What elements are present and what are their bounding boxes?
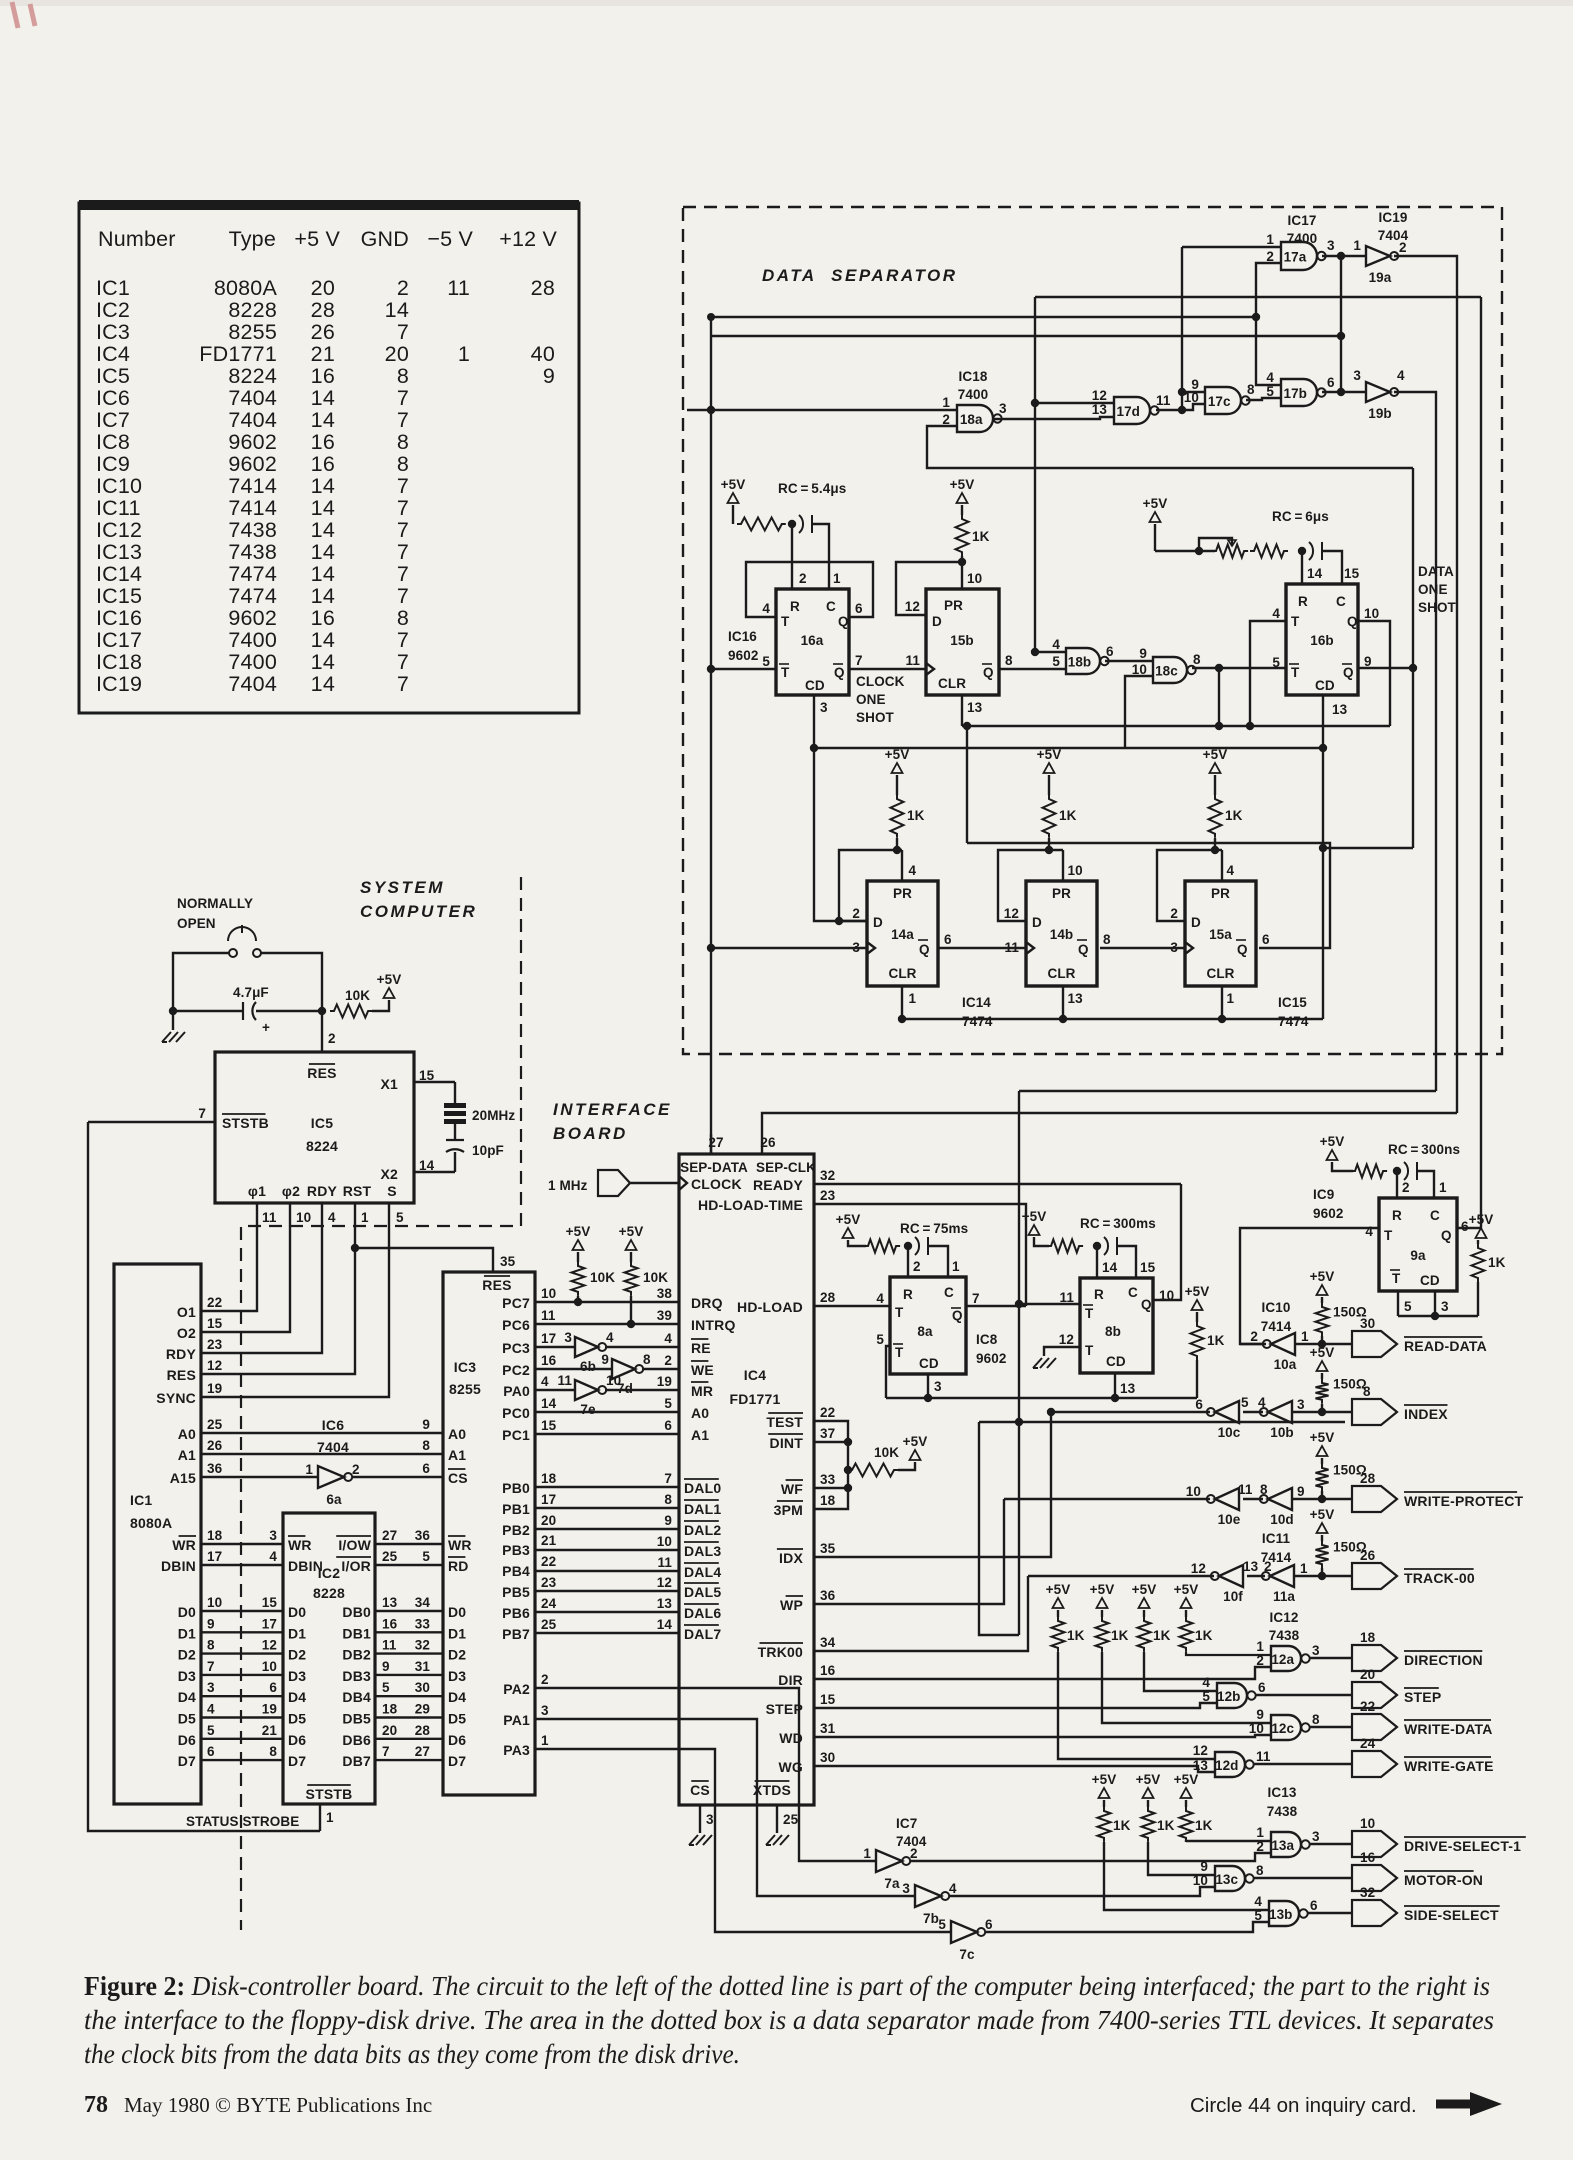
svg-text:34: 34 [820, 1635, 836, 1650]
wire crystal top [454, 1082, 456, 1103]
ground 8b T [1033, 1358, 1056, 1368]
svg-text:7438: 7438 [1269, 1628, 1300, 1643]
svg-text:SIDE-SELECT: SIDE-SELECT [1404, 1907, 1499, 1923]
svg-text:IC7: IC7 [896, 1816, 917, 1831]
svg-text:DATA SEPARATOR: DATA SEPARATOR [762, 266, 958, 285]
svg-text:+5 V: +5 V [294, 227, 340, 251]
svg-text:PB1: PB1 [502, 1501, 530, 1517]
wire R pin 16a [791, 524, 793, 589]
svg-text:IC13: IC13 [96, 540, 142, 564]
wire 18b out to 18c.9 [1105, 660, 1153, 662]
node 19b input [1337, 388, 1345, 396]
wire cap to C pin 16a [812, 524, 829, 589]
svg-text:11: 11 [1256, 1749, 1271, 1764]
svg-text:28: 28 [415, 1723, 431, 1738]
svg-text:5: 5 [382, 1680, 390, 1695]
capacitor RC 8b [1104, 1237, 1117, 1255]
wire DINT stub [814, 1441, 848, 1443]
svg-text:+5V: +5V [903, 1434, 928, 1449]
svg-text:20: 20 [385, 342, 409, 366]
svg-text:RES: RES [307, 1065, 336, 1081]
svg-text:DBIN: DBIN [288, 1558, 323, 1574]
svg-text:1: 1 [909, 991, 917, 1006]
svg-text:SEP-CLK: SEP-CLK [756, 1160, 816, 1175]
svg-text:1: 1 [1256, 1825, 1264, 1840]
svg-text:D1: D1 [288, 1625, 306, 1641]
svg-text:21: 21 [262, 1723, 278, 1738]
wire 1K to PR 14b [1048, 838, 1050, 850]
wire 8a Qbar up [966, 1305, 1026, 1307]
wire 16b Q loop [1358, 621, 1390, 726]
wire 10a to node [1295, 1343, 1352, 1345]
svg-text:WR: WR [288, 1537, 312, 1553]
svg-text:16: 16 [382, 1616, 398, 1631]
svg-text:IC15: IC15 [1278, 995, 1307, 1010]
svg-text:DB3: DB3 [342, 1668, 371, 1684]
capacitor C-reset 4.7uF [243, 1002, 256, 1020]
svg-text:11: 11 [558, 1373, 573, 1388]
wire +5V stem 16b [1154, 524, 1156, 551]
svg-text:22: 22 [541, 1554, 556, 1569]
wire cap row [173, 1010, 243, 1012]
svg-text:7438: 7438 [228, 540, 277, 564]
svg-text:9: 9 [207, 1616, 215, 1631]
svg-text:IC9: IC9 [1313, 1187, 1334, 1202]
svg-text:12: 12 [1059, 1332, 1074, 1347]
svg-text:8: 8 [1256, 1863, 1264, 1878]
resistor RC 16a [737, 518, 786, 531]
wire bus y317 [711, 316, 1256, 318]
svg-text:16: 16 [311, 364, 335, 388]
svg-text:8: 8 [1363, 1384, 1371, 1399]
wire PC1-A1 [535, 1433, 679, 1435]
node 17a output [1337, 252, 1345, 260]
svg-text:D: D [873, 915, 883, 930]
svg-text:2: 2 [1256, 1839, 1264, 1854]
svg-text:DAL5: DAL5 [684, 1584, 721, 1600]
wire 13c out [1253, 1877, 1352, 1879]
svg-text:IC3: IC3 [454, 1359, 476, 1375]
node 17d.12 [1031, 399, 1039, 407]
wires D0-D7 IC1 to IC2 [201, 1610, 283, 1612]
node 9a CD [1431, 1312, 1439, 1320]
svg-text:27: 27 [415, 1744, 430, 1759]
node bus 14a clk [707, 944, 715, 952]
wire bus y297 [1035, 296, 1481, 298]
wire stem bank2-3 [1185, 1800, 1187, 1807]
svg-text:PA0: PA0 [503, 1383, 530, 1399]
svg-text:2: 2 [799, 571, 807, 586]
wire 10b to node [1292, 1411, 1352, 1413]
svg-text:1K: 1K [1059, 808, 1077, 823]
wire 10K to +5V [372, 1000, 389, 1011]
svg-text:PB3: PB3 [502, 1542, 530, 1558]
svg-text:IC18: IC18 [96, 650, 142, 674]
svg-text:3: 3 [541, 1703, 549, 1718]
svg-text:14: 14 [311, 496, 335, 520]
svg-text:+5V: +5V [1092, 1772, 1117, 1787]
svg-text:8228: 8228 [313, 1585, 345, 1601]
svg-text:14: 14 [419, 1158, 435, 1173]
wire bus y336 [711, 335, 1341, 337]
svg-text:DRIVE-SELECT-1: DRIVE-SELECT-1 [1404, 1838, 1521, 1854]
svg-text:12: 12 [1092, 388, 1107, 403]
wire CD x1323 down [1322, 748, 1324, 1019]
resistor RC 9a [1351, 1165, 1387, 1178]
svg-text:TRK00: TRK00 [758, 1644, 803, 1660]
svg-text:26: 26 [207, 1438, 223, 1453]
svg-text:A0: A0 [448, 1426, 466, 1442]
svg-text:26: 26 [1360, 1548, 1376, 1563]
wire 17a.1 vertical [1181, 247, 1183, 410]
svg-text:5: 5 [664, 1396, 672, 1411]
svg-text:DAL4: DAL4 [684, 1564, 721, 1580]
wire X2 stub [414, 1171, 455, 1173]
crystal 20MHz [444, 1103, 466, 1108]
svg-text:D: D [1191, 915, 1201, 930]
svg-text:16: 16 [311, 606, 335, 630]
svg-text:20: 20 [541, 1513, 556, 1528]
wire 17a input 2 vertical [1256, 263, 1281, 385]
wire 16a CD to 14a D [814, 748, 867, 921]
resistor 1K 15b [956, 515, 969, 556]
connector WRITE-PROTECT [1352, 1486, 1397, 1512]
svg-text:1: 1 [952, 1259, 960, 1274]
svg-text:RES: RES [482, 1277, 511, 1293]
svg-text:CLR: CLR [1047, 966, 1075, 981]
svg-text:6: 6 [422, 1461, 430, 1476]
svg-text:25: 25 [541, 1617, 557, 1632]
svg-text:5: 5 [1241, 1395, 1249, 1410]
svg-text:16a: 16a [801, 633, 824, 648]
svg-text:21: 21 [541, 1533, 557, 1548]
wire PR stub 14a [901, 850, 903, 881]
svg-text:19a: 19a [1369, 270, 1392, 285]
svg-text:5: 5 [1272, 655, 1280, 670]
svg-text:7: 7 [198, 1106, 206, 1121]
svg-text:19: 19 [657, 1374, 672, 1389]
svg-text:8080A: 8080A [214, 276, 278, 300]
flip-flop 14a [867, 881, 938, 986]
svg-text:3: 3 [564, 1330, 572, 1345]
svg-text:7e: 7e [580, 1402, 596, 1417]
one-shot 16a box [776, 589, 849, 695]
svg-text:R: R [1298, 594, 1308, 609]
wire PC2 to 7d [535, 1368, 612, 1370]
svg-text:7: 7 [397, 474, 409, 498]
wire 10a out [1240, 1343, 1266, 1345]
svg-text:Number: Number [98, 227, 176, 251]
wire 15b Qbar to 18b.5 [999, 668, 1066, 670]
wire 1K to 12d.12 [1058, 1652, 1215, 1759]
svg-text:8255: 8255 [228, 320, 277, 344]
svg-text:28: 28 [820, 1290, 836, 1305]
svg-text:10: 10 [296, 1210, 311, 1225]
IC1 8080A box [114, 1264, 201, 1804]
svg-text:D5: D5 [448, 1711, 466, 1727]
svg-text:DB2: DB2 [342, 1647, 371, 1663]
node 8a R [904, 1242, 912, 1250]
svg-text:NORMALLY: NORMALLY [177, 896, 253, 911]
svg-text:RES: RES [167, 1367, 196, 1383]
svg-text:4: 4 [762, 601, 770, 616]
svg-text:D: D [1032, 915, 1042, 930]
svg-text:XTDS: XTDS [753, 1782, 791, 1798]
svg-text:PB7: PB7 [502, 1626, 530, 1642]
wire 18c out to 16b [1192, 667, 1286, 669]
svg-text:RC = 75ms: RC = 75ms [900, 1221, 968, 1236]
15b clk mark [926, 663, 934, 675]
svg-text:PR: PR [1211, 886, 1230, 901]
flip-flop 15b box [926, 589, 999, 695]
svg-text:+5V: +5V [1310, 1269, 1335, 1284]
svg-text:WRITE-DATA: WRITE-DATA [1404, 1721, 1493, 1737]
svg-text:36: 36 [820, 1588, 836, 1603]
svg-text:11: 11 [262, 1210, 277, 1225]
svg-text:Q: Q [1347, 614, 1358, 629]
svg-text:10: 10 [207, 1595, 222, 1610]
svg-text:+5V: +5V [1469, 1212, 1494, 1227]
svg-text:IC8: IC8 [96, 430, 130, 454]
svg-text:Type: Type [229, 227, 276, 251]
wire DBIN bus [201, 1564, 283, 1566]
svg-text:DBIN: DBIN [161, 1558, 196, 1574]
svg-text:3: 3 [207, 1680, 215, 1695]
svg-text:14: 14 [311, 540, 335, 564]
svg-text:10: 10 [1132, 662, 1147, 677]
node 8b Tbar [1015, 1300, 1023, 1308]
svg-text:CS: CS [448, 1470, 468, 1486]
wire 6b to RE [605, 1346, 679, 1348]
svg-text:IC10: IC10 [96, 474, 142, 498]
svg-text:T: T [1085, 1343, 1094, 1358]
wire 17a.3 to 19b.3 vertical [1340, 256, 1342, 392]
node DINT [844, 1438, 852, 1446]
svg-text:WR: WR [172, 1537, 196, 1553]
wire 9a CD stub [1434, 1291, 1436, 1316]
svg-text:IC17: IC17 [1288, 213, 1317, 228]
svg-text:D2: D2 [178, 1647, 196, 1663]
resistor 1K 14b [1043, 795, 1056, 838]
svg-text:10b: 10b [1270, 1425, 1294, 1440]
wire 11a to node [1294, 1575, 1352, 1577]
node 16b R [1298, 547, 1306, 555]
svg-text:WP: WP [780, 1597, 803, 1613]
node DRQ pullup [574, 1298, 582, 1306]
wire HD-LOAD to 8a.T [814, 1305, 890, 1307]
svg-text:D7: D7 [288, 1753, 306, 1769]
wire 9a T loop [1240, 1228, 1379, 1344]
inverter 11a [1270, 1565, 1294, 1587]
svg-text:7: 7 [972, 1291, 980, 1306]
wire stem bank1-3 [1143, 1610, 1145, 1617]
node 17d out tap [1178, 406, 1186, 414]
wire status strobe loop [88, 1122, 320, 1831]
inverter 19a [1366, 246, 1390, 266]
svg-text:CLOCK: CLOCK [856, 674, 905, 689]
svg-text:25: 25 [382, 1549, 398, 1564]
wire 15a Qbar up [967, 843, 1330, 948]
svg-text:17: 17 [262, 1616, 277, 1631]
wire IDX from IC4 [814, 1412, 1051, 1557]
ground XTDS [766, 1835, 789, 1845]
svg-text:31: 31 [820, 1721, 836, 1736]
svg-text:23: 23 [207, 1337, 223, 1352]
svg-text:T: T [1392, 1271, 1401, 1286]
svg-text:18: 18 [820, 1493, 836, 1508]
svg-text:2: 2 [942, 412, 950, 427]
inverter 7d [612, 1359, 635, 1379]
svg-text:10: 10 [1193, 1873, 1208, 1888]
svg-text:IC11: IC11 [1262, 1531, 1291, 1546]
svg-text:IC14: IC14 [962, 995, 991, 1010]
svg-text:HD-LOAD-TIME: HD-LOAD-TIME [698, 1197, 803, 1213]
wire 8b Tbar in [1019, 1303, 1080, 1305]
node 16b CD a [1319, 744, 1327, 752]
node 18a.1 bus tap [707, 406, 715, 414]
svg-text:11a: 11a [1273, 1589, 1295, 1604]
svg-text:2: 2 [1264, 1559, 1272, 1574]
svg-text:10: 10 [541, 1286, 556, 1301]
svg-text:the clock bits from the data b: the clock bits from the data bits as the… [84, 2039, 740, 2069]
wire 12d out [1253, 1763, 1352, 1765]
svg-text:D5: D5 [288, 1711, 306, 1727]
svg-text:14: 14 [1102, 1260, 1118, 1275]
node 16a trigger [707, 665, 715, 673]
svg-text:D2: D2 [288, 1647, 306, 1663]
svg-text:1: 1 [305, 1462, 313, 1477]
wire 14b CLR stub [1062, 986, 1064, 1019]
svg-text:A1: A1 [178, 1447, 196, 1463]
svg-text:D3: D3 [178, 1668, 196, 1684]
svg-text:STATUS STROBE: STATUS STROBE [186, 1814, 299, 1829]
wire PR stub 15a [1221, 850, 1223, 881]
svg-text:1: 1 [1439, 1180, 1447, 1195]
svg-text:15: 15 [820, 1692, 836, 1707]
svg-text:8: 8 [397, 606, 409, 630]
resistor RC 8b [1047, 1240, 1083, 1253]
svg-text:8: 8 [397, 452, 409, 476]
svg-text:15: 15 [1140, 1260, 1156, 1275]
resistor 1K 15a [1209, 795, 1222, 838]
svg-text:38: 38 [657, 1286, 673, 1301]
svg-text:10K: 10K [874, 1445, 899, 1460]
wire PR stub 14b [1062, 850, 1064, 881]
svg-text:15: 15 [207, 1316, 223, 1331]
node PR 14b [1045, 846, 1053, 854]
svg-text:Q: Q [1237, 942, 1248, 957]
svg-text:2: 2 [397, 276, 409, 300]
connector STEP [1352, 1682, 1397, 1708]
wire R pin 16b [1301, 551, 1303, 584]
wire DIR to 12a.2 [814, 1667, 1271, 1679]
svg-text:D3: D3 [288, 1668, 306, 1684]
capacitor 10pF [446, 1140, 464, 1152]
svg-text:IC18: IC18 [959, 369, 988, 384]
node WF [844, 1484, 852, 1492]
svg-text:Q: Q [952, 1308, 963, 1323]
wire 15a D loop [1157, 850, 1222, 921]
wire 12c out [1309, 1726, 1352, 1728]
wire WD to 12c.10 [814, 1735, 1271, 1737]
wire stem bank1-2 [1101, 1610, 1103, 1617]
svg-text:MOTOR-ON: MOTOR-ON [1404, 1872, 1483, 1888]
svg-text:10e: 10e [1218, 1512, 1241, 1527]
wire SEP-DATA stub [710, 1134, 712, 1154]
capacitor RC 9a [1404, 1162, 1417, 1180]
node rail x1219 [1215, 722, 1223, 730]
svg-text:7400: 7400 [228, 650, 277, 674]
nand gate 12d [1215, 1752, 1245, 1777]
svg-text:150Ω: 150Ω [1333, 1377, 1367, 1392]
svg-text:DIR: DIR [778, 1672, 803, 1688]
wire READY line [814, 1183, 1181, 1185]
svg-text:10: 10 [1186, 1484, 1201, 1499]
svg-text:7c: 7c [959, 1947, 975, 1962]
svg-text:PB6: PB6 [502, 1605, 530, 1621]
IC5 8224 box [215, 1052, 414, 1203]
wire 16b Qbar out [1358, 667, 1413, 669]
wire 17c output to 17b.5 [1246, 398, 1281, 400]
svg-text:19: 19 [207, 1381, 222, 1396]
power-pin table frame [79, 203, 579, 713]
svg-text:12: 12 [1193, 1743, 1208, 1758]
svg-text:INTERFACE: INTERFACE [553, 1100, 672, 1119]
svg-text:9: 9 [543, 364, 555, 388]
svg-text:8224: 8224 [306, 1138, 338, 1154]
svg-text:IC1: IC1 [130, 1492, 152, 1508]
svg-text:7438: 7438 [228, 518, 277, 542]
resistor 10K mode [848, 1464, 898, 1477]
svg-text:4.7μF: 4.7μF [233, 985, 269, 1000]
wire PA2 to 7a [535, 1688, 876, 1861]
wire R pin 8a [907, 1246, 909, 1277]
svg-text:PR: PR [944, 598, 963, 613]
svg-text:SYNC: SYNC [156, 1390, 196, 1406]
svg-text:34: 34 [415, 1595, 431, 1610]
svg-text:+5V: +5V [1310, 1507, 1335, 1522]
svg-text:4: 4 [1202, 1675, 1210, 1690]
svg-text:5: 5 [422, 1549, 430, 1564]
svg-text:5: 5 [1254, 1908, 1262, 1923]
svg-text:READ-DATA: READ-DATA [1404, 1338, 1487, 1354]
wire stem 8a rc [848, 1240, 866, 1246]
svg-text:CS: CS [690, 1782, 710, 1798]
wire crystal to cap [454, 1124, 456, 1140]
svg-text:CD: CD [805, 678, 825, 693]
node 16b Qbar [1409, 664, 1417, 672]
wire X1 stub [414, 1081, 455, 1083]
svg-text:7: 7 [397, 408, 409, 432]
svg-text:C: C [1336, 594, 1346, 609]
svg-text:18a: 18a [960, 412, 983, 427]
nand gate 18b [1066, 648, 1100, 674]
svg-text:8: 8 [422, 1438, 430, 1453]
svg-text:IC14: IC14 [96, 562, 142, 586]
svg-text:PA3: PA3 [503, 1742, 530, 1758]
svg-text:FD1771: FD1771 [729, 1391, 780, 1407]
svg-text:SEP-DATA: SEP-DATA [680, 1160, 748, 1175]
svg-text:1 MHz: 1 MHz [548, 1178, 588, 1193]
ground CS [689, 1835, 712, 1845]
wire 10K to +5V mode [898, 1462, 915, 1470]
svg-text:R: R [903, 1287, 913, 1302]
connector TRACK-00 [1352, 1563, 1397, 1589]
wire y1091 link [1019, 1090, 1436, 1092]
svg-text:8228: 8228 [228, 298, 277, 322]
svg-text:4: 4 [1266, 370, 1274, 385]
svg-text:1K: 1K [972, 529, 990, 544]
